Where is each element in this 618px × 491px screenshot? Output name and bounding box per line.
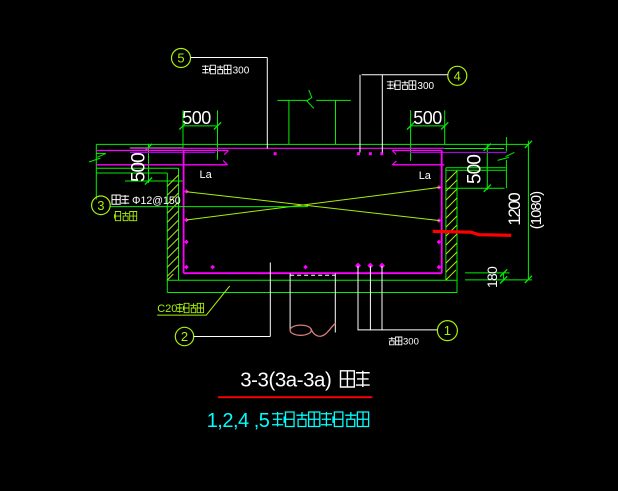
svg-text:500: 500 [128, 153, 149, 182]
svg-text:500: 500 [413, 108, 442, 128]
svg-text:1,2,4 ,5: 1,2,4 ,5 [207, 410, 270, 432]
svg-text:4: 4 [454, 68, 461, 83]
svg-text:La: La [200, 169, 213, 181]
svg-text:500: 500 [182, 108, 211, 128]
svg-text:180: 180 [484, 266, 500, 288]
svg-text:300: 300 [417, 81, 434, 92]
svg-text:2: 2 [181, 329, 188, 344]
svg-text:500: 500 [465, 155, 486, 184]
svg-text:300: 300 [233, 66, 250, 77]
svg-text:1: 1 [444, 323, 451, 338]
svg-text:Φ12@150: Φ12@150 [132, 195, 181, 207]
svg-text:300: 300 [403, 336, 419, 347]
svg-text:(1080): (1080) [528, 191, 545, 229]
svg-text:3: 3 [97, 198, 104, 213]
svg-text:1200: 1200 [505, 193, 524, 226]
svg-text:La: La [419, 170, 432, 182]
svg-text:3-3(3a-3a): 3-3(3a-3a) [240, 370, 331, 392]
svg-text:C20: C20 [157, 303, 177, 315]
svg-text:5: 5 [177, 51, 184, 66]
